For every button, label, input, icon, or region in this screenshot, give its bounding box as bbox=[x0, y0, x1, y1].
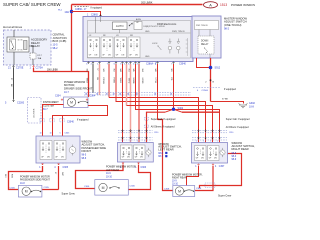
wire staircase col 3 bbox=[124, 64, 130, 106]
svg-text:943: 943 bbox=[102, 69, 104, 72]
diode indicator 1 bbox=[168, 39, 172, 54]
svg-text:TN/RD: TN/RD bbox=[128, 78, 130, 84]
svg-text:DN(8)/VTH VCC UPDN: DN(8)/VTH VCC UPDN bbox=[144, 26, 165, 28]
svg-text:85: 85 bbox=[21, 50, 23, 52]
svg-text:C310: C310 bbox=[154, 132, 158, 134]
svg-text:C306: C306 bbox=[130, 186, 136, 188]
wire staircase to right rear switch pin4 bbox=[136, 64, 220, 143]
svg-text:98-9: 98-9 bbox=[232, 159, 237, 161]
diode indicator 2 bbox=[177, 39, 181, 54]
svg-text:R/W: R/W bbox=[11, 174, 13, 178]
wire battery feed top bbox=[72, 2, 203, 8]
wire column stub bbox=[97, 64, 103, 95]
svg-text:WH/BK: WH/BK bbox=[132, 78, 134, 85]
svg-text:G302: G302 bbox=[249, 102, 255, 105]
window adjust switch passenger side front bbox=[36, 136, 80, 163]
wire fuse to C270A bbox=[32, 59, 34, 65]
svg-text:981: 981 bbox=[170, 69, 172, 72]
svg-text:C3040: C3040 bbox=[67, 121, 74, 123]
svg-text:PK/BK: PK/BK bbox=[113, 78, 115, 84]
svg-text:DOWN: DOWN bbox=[201, 41, 209, 43]
svg-text:98-6: 98-6 bbox=[82, 158, 87, 160]
svg-text:POWER WINDOW MOTOR,: POWER WINDOW MOTOR, bbox=[106, 166, 137, 169]
wire bus to left rear switch bbox=[147, 112, 166, 142]
DDM switch cell LR bbox=[115, 37, 127, 58]
svg-text:M: M bbox=[102, 186, 105, 190]
svg-text:C308: C308 bbox=[164, 189, 170, 191]
comb connector bbox=[186, 38, 188, 56]
wire staircase to right rear switch pin3 bbox=[127, 106, 213, 143]
wire relay top bbox=[13, 30, 15, 37]
wire to DDM pin bbox=[72, 12, 101, 17]
note all others left bbox=[145, 125, 149, 128]
svg-text:GND: GND bbox=[145, 31, 150, 33]
svg-text:98-2: 98-2 bbox=[53, 47, 59, 50]
wire right rear motor feed bbox=[158, 120, 173, 191]
ground G302 bbox=[238, 103, 247, 108]
svg-text:98-2: 98-2 bbox=[224, 27, 230, 30]
svg-text:1: 1 bbox=[217, 141, 218, 143]
svg-text:PWR, TRN IN: PWR, TRN IN bbox=[172, 31, 185, 33]
svg-text:S402: S402 bbox=[178, 107, 184, 110]
splice S402 bbox=[165, 109, 182, 112]
internal rail bbox=[88, 32, 191, 34]
svg-text:DRIVER SIDE FRONT: DRIVER SIDE FRONT bbox=[64, 86, 93, 90]
svg-text:C306: C306 bbox=[141, 167, 147, 169]
svg-text:FRONT: FRONT bbox=[82, 149, 92, 153]
svg-text:TN/LB: TN/LB bbox=[86, 78, 88, 84]
svg-text:1: 1 bbox=[210, 141, 211, 143]
svg-text:If equipped: If equipped bbox=[77, 119, 89, 121]
wire bus to right rear bbox=[182, 110, 220, 115]
svg-text:YE/LB: YE/LB bbox=[119, 78, 121, 84]
svg-text:964: 964 bbox=[141, 69, 143, 72]
svg-text:LOCK: LOCK bbox=[152, 43, 158, 45]
svg-text:306 LB/BK: 306 LB/BK bbox=[47, 69, 58, 71]
svg-text:BOX (CJB): BOX (CJB) bbox=[53, 39, 67, 43]
svg-text:10-8: 10-8 bbox=[249, 106, 254, 109]
central junction box CJB bbox=[4, 30, 52, 65]
svg-text:1: 1 bbox=[137, 141, 138, 143]
fuse F2.7 bbox=[30, 53, 36, 59]
wire to ground G302 bbox=[211, 102, 244, 104]
svg-text:98-7: 98-7 bbox=[158, 156, 163, 158]
note super cab left bbox=[145, 117, 149, 120]
svg-text:30: 30 bbox=[18, 40, 20, 42]
wire stub to switch bbox=[61, 116, 65, 136]
master window adjust switch box bbox=[192, 16, 221, 58]
svg-text:10-7: 10-7 bbox=[64, 91, 69, 94]
svg-text:941: 941 bbox=[86, 69, 88, 72]
svg-text:RIGHT REAR: RIGHT REAR bbox=[232, 147, 249, 151]
wire motor2 right pin bbox=[42, 187, 59, 192]
svg-text:86: 86 bbox=[21, 40, 23, 42]
svg-text:1: 1 bbox=[122, 141, 123, 143]
svg-text:87: 87 bbox=[18, 50, 20, 52]
svg-text:GY/BD: GY/BD bbox=[141, 78, 143, 85]
inline connector bbox=[205, 183, 215, 188]
wire vertical feed x71 bbox=[69, 5, 74, 72]
svg-text:962: 962 bbox=[113, 69, 115, 72]
svg-text:W/P: W/P bbox=[61, 172, 63, 176]
svg-text:1n: 1n bbox=[50, 133, 52, 135]
svg-text:SUPER CAB/ SUPER CREW: SUPER CAB/ SUPER CREW bbox=[3, 2, 61, 7]
svg-text:57: 57 bbox=[96, 69, 98, 71]
wire staircase col 1 bbox=[107, 64, 111, 98]
connector arrow A to power windows bbox=[204, 2, 218, 8]
svg-text:963: 963 bbox=[128, 69, 130, 72]
inline connector row C302 bbox=[84, 91, 191, 93]
svg-text:PASSENGER SIDE FRONT: PASSENGER SIDE FRONT bbox=[20, 179, 50, 182]
inline connector row C3040 bbox=[40, 119, 44, 122]
wire column to left rear switch bbox=[128, 64, 134, 143]
inline connector row B bbox=[118, 137, 153, 139]
instrument cluster bbox=[28, 98, 42, 124]
wire relay to fuse bbox=[29, 46, 33, 53]
svg-text:INSTRUMENT: INSTRUMENT bbox=[43, 101, 59, 104]
svg-text:C305: C305 bbox=[63, 167, 69, 169]
svg-text:98-3: 98-3 bbox=[232, 156, 237, 158]
AUTO box bbox=[113, 22, 128, 30]
svg-text:PWL TDN IN: PWL TDN IN bbox=[196, 25, 208, 27]
wire driver motor return bbox=[53, 106, 108, 137]
wire column to left rear switch bbox=[137, 64, 141, 143]
svg-text:M: M bbox=[25, 190, 28, 194]
wire to splice S402 bbox=[172, 64, 176, 109]
svg-text:RD/WH: RD/WH bbox=[102, 78, 104, 85]
wire column to left rear switch bbox=[121, 64, 125, 143]
svg-text:If equipped: If equipped bbox=[224, 88, 237, 91]
svg-text:10-9: 10-9 bbox=[106, 173, 111, 175]
svg-text:98-8: 98-8 bbox=[232, 153, 237, 155]
svg-text:AUTO: AUTO bbox=[116, 24, 125, 28]
wire to right rear motor bbox=[156, 64, 160, 120]
svg-text:945: 945 bbox=[132, 69, 134, 72]
wire staircase to right rear switch pin1 bbox=[109, 98, 199, 143]
svg-text:All Others: If equipped: All Others: If equipped bbox=[151, 126, 175, 129]
svg-text:If equipped: If equipped bbox=[91, 8, 103, 10]
svg-text:Super Cab: If equipped: Super Cab: If equipped bbox=[151, 118, 176, 121]
svg-text:Hot at all times: Hot at all times bbox=[3, 25, 23, 29]
power window motor driver side front bbox=[64, 97, 89, 108]
svg-text:1: 1 bbox=[144, 141, 145, 143]
svg-text:C304: C304 bbox=[90, 96, 96, 98]
svg-text:C270E: C270E bbox=[16, 67, 24, 70]
svg-text:RIGHT REAR: RIGHT REAR bbox=[172, 177, 187, 180]
svg-text:1: 1 bbox=[196, 141, 197, 143]
wire switch3 return bbox=[195, 166, 213, 191]
svg-text:POWER WINDOW MOTOR,: POWER WINDOW MOTOR, bbox=[172, 173, 203, 176]
wire switch2 to motor3 bbox=[76, 165, 124, 189]
svg-text:C2500: C2500 bbox=[202, 90, 209, 92]
wire switch1 return bbox=[56, 166, 61, 190]
svg-text:60-7: 60-7 bbox=[43, 109, 48, 111]
DDM switch cell LF bbox=[88, 37, 100, 58]
DDM switch cell RF bbox=[101, 37, 113, 58]
svg-text:CLUSTER: CLUSTER bbox=[34, 108, 36, 118]
DDM switch cell RR bbox=[128, 37, 140, 58]
accessory delay relay bbox=[7, 37, 29, 52]
svg-text:1513: 1513 bbox=[220, 3, 227, 7]
svg-text:ADJUST SWITCH: ADJUST SWITCH bbox=[224, 20, 247, 24]
svg-text:98-6: 98-6 bbox=[158, 153, 163, 155]
svg-text:GND: GND bbox=[145, 56, 150, 58]
power window motor right rear bbox=[173, 186, 195, 197]
splice S912 bbox=[209, 66, 213, 70]
svg-text:C306: C306 bbox=[84, 186, 90, 188]
svg-text:POWER WINDOW MOTOR: POWER WINDOW MOTOR bbox=[20, 175, 50, 178]
wire 57 BK column bbox=[91, 64, 94, 93]
wire 57 BK to cluster bbox=[12, 68, 15, 99]
svg-text:POWER WINDOWS: POWER WINDOWS bbox=[231, 3, 255, 7]
svg-text:C308: C308 bbox=[196, 188, 202, 190]
svg-text:S912: S912 bbox=[215, 66, 221, 69]
svg-text:Super Crew: Super Crew bbox=[218, 195, 231, 198]
wire driver motor to front switch bbox=[43, 105, 64, 137]
svg-text:C270A: C270A bbox=[36, 67, 44, 70]
wire switch2 return from motor3 bbox=[128, 165, 150, 190]
power window motor passenger side front bbox=[18, 185, 42, 197]
svg-text:LEFT REAR: LEFT REAR bbox=[158, 147, 173, 151]
svg-text:Super Crew: Super Crew bbox=[62, 193, 75, 196]
splice bbox=[70, 10, 73, 13]
wire switch1 to motor2 bbox=[9, 166, 43, 190]
svg-text:10-10: 10-10 bbox=[106, 177, 113, 179]
svg-text:57 BK: 57 BK bbox=[222, 99, 228, 101]
window adjust switch right rear bbox=[192, 143, 228, 164]
svg-text:1: 1 bbox=[203, 141, 204, 143]
wire staircase to right rear switch pin2 bbox=[116, 64, 206, 143]
driver door module / window control box bbox=[83, 17, 193, 62]
svg-text:10-8: 10-8 bbox=[20, 183, 25, 185]
svg-text:C305: C305 bbox=[10, 187, 16, 189]
internal wire bbox=[119, 30, 121, 34]
svg-text:98-5: 98-5 bbox=[82, 155, 87, 157]
down relay bbox=[198, 36, 214, 54]
wire master switch pin bbox=[197, 58, 211, 68]
internal wire bbox=[95, 17, 97, 34]
svg-text:10-9: 10-9 bbox=[172, 180, 177, 182]
svg-text:M: M bbox=[178, 189, 181, 193]
svg-text:946: 946 bbox=[154, 69, 156, 72]
wire master switch to ground bbox=[208, 58, 213, 102]
inline connector C2866 dash bbox=[75, 5, 90, 7]
svg-text:C2300: C2300 bbox=[17, 101, 25, 104]
svg-text:M: M bbox=[70, 101, 73, 105]
window adjust switch left rear bbox=[118, 143, 154, 163]
svg-text:LEFT REAR: LEFT REAR bbox=[106, 169, 119, 172]
svg-text:944: 944 bbox=[119, 69, 121, 72]
svg-text:C307: C307 bbox=[219, 166, 225, 168]
inline connector row A bbox=[118, 129, 153, 131]
svg-text:VT/YE: VT/YE bbox=[154, 78, 156, 84]
svg-text:C305: C305 bbox=[44, 187, 50, 189]
svg-text:C2866 - 17: C2866 - 17 bbox=[75, 9, 87, 11]
wire switch3 to motor4 top bbox=[187, 166, 199, 186]
power window motor left rear bbox=[95, 180, 129, 196]
svg-text:C310: C310 bbox=[229, 132, 233, 134]
wire right rear switch to motor connector bbox=[200, 154, 242, 189]
connector pins at row crossings bbox=[122, 129, 124, 131]
svg-text:13-5: 13-5 bbox=[53, 44, 59, 47]
svg-text:1n: 1n bbox=[40, 133, 42, 135]
svg-text:C3040: C3040 bbox=[179, 64, 186, 66]
internal wire from pin bbox=[100, 17, 102, 23]
inline connector row C2500 bbox=[193, 87, 220, 89]
wire relay to C270E bbox=[13, 52, 15, 65]
wire C270A to driver window motor bbox=[34, 68, 89, 97]
svg-text:1: 1 bbox=[130, 141, 131, 143]
svg-text:C304: C304 bbox=[55, 96, 61, 98]
